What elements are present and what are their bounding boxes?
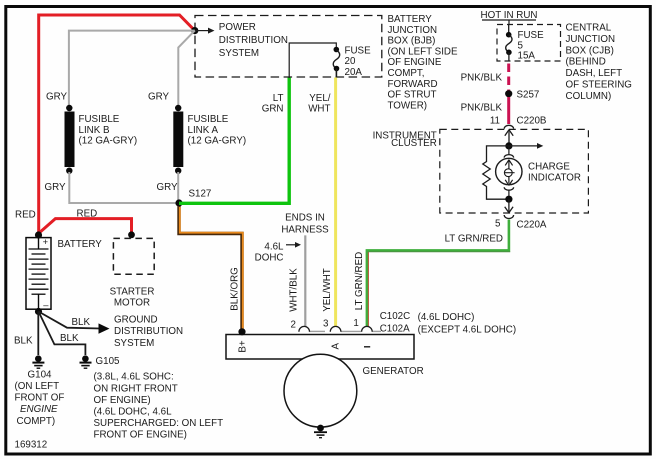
svg-text:POWER: POWER — [219, 22, 256, 33]
resistor in instrument cluster — [483, 146, 509, 199]
svg-text:RED: RED — [77, 209, 98, 220]
svg-text:20: 20 — [345, 56, 356, 67]
svg-text:+: + — [43, 236, 49, 247]
svg-text:S127: S127 — [189, 189, 212, 200]
wire GRY fusible link A to splice S127 — [177, 172, 179, 203]
svg-text:BLK: BLK — [14, 336, 33, 347]
dashed box instrument cluster — [440, 129, 589, 213]
svg-text:BOX (CJB): BOX (CJB) — [566, 45, 614, 56]
svg-text:DOHC: DOHC — [255, 253, 284, 264]
connector pin 1 dome — [362, 326, 373, 331]
svg-text:DISTRIBUTION: DISTRIBUTION — [114, 326, 183, 337]
svg-text:(4.6L DOHC): (4.6L DOHC) — [418, 312, 475, 323]
svg-text:(ON LEFT: (ON LEFT — [15, 381, 60, 392]
wire BLK battery to G105 — [39, 312, 86, 356]
node junction top — [505, 142, 512, 149]
svg-text:15A: 15A — [518, 50, 536, 61]
svg-text:COMPT): COMPT) — [17, 416, 56, 427]
svg-text:169312: 169312 — [15, 440, 48, 451]
wire YEL/WHT fuse 20 to generator pin 3 — [335, 69, 337, 78]
svg-text:CENTRAL: CENTRAL — [566, 23, 612, 34]
svg-text:JUNCTION: JUNCTION — [388, 25, 438, 36]
svg-text:FUSIBLE: FUSIBLE — [79, 114, 120, 125]
svg-text:YEL/WHT: YEL/WHT — [322, 268, 333, 312]
node B+ terminal — [238, 328, 245, 335]
fuse 5 15A — [506, 25, 512, 62]
wire PNK/BLK S257 to C220B — [507, 97, 510, 124]
svg-text:HARNESS: HARNESS — [281, 224, 329, 235]
svg-text:FUSIBLE: FUSIBLE — [188, 114, 229, 125]
svg-text:FRONT OF ENGINE): FRONT OF ENGINE) — [94, 430, 187, 441]
svg-text:RED: RED — [15, 210, 36, 221]
svg-text:3: 3 — [323, 319, 329, 330]
svg-text:LINK B: LINK B — [79, 125, 111, 136]
svg-text:WHT: WHT — [308, 104, 330, 115]
svg-text:ENGINE: ENGINE — [20, 404, 58, 415]
svg-text:20A: 20A — [345, 67, 363, 78]
svg-text:BOX (BJB): BOX (BJB) — [388, 36, 436, 47]
svg-text:DASH, LEFT: DASH, LEFT — [566, 68, 623, 79]
svg-text:C220A: C220A — [517, 220, 547, 231]
ground at generator — [314, 425, 327, 438]
svg-text:CLUSTER: CLUSTER — [391, 138, 437, 149]
fuse 20 20A — [333, 47, 339, 72]
svg-text:ON RIGHT FRONT: ON RIGHT FRONT — [94, 383, 178, 394]
svg-text:(4.6L DOHC, 4.6L: (4.6L DOHC, 4.6L — [94, 407, 173, 418]
node S126 junction dot at power distribution — [191, 27, 198, 34]
svg-text:S257: S257 — [517, 90, 540, 101]
svg-text:LT GRN/RED: LT GRN/RED — [445, 234, 503, 245]
generator circle — [284, 354, 357, 427]
wire out of instrument cluster with down arrow — [505, 199, 513, 213]
wire GRY node to fusible link A — [178, 31, 195, 106]
splice S127 — [175, 199, 182, 206]
wire BLK battery to G104 — [37, 312, 39, 356]
wire BLK/ORG splice S127 to generator B+ — [179, 206, 242, 330]
svg-text:JUNCTION: JUNCTION — [566, 34, 616, 45]
svg-text:5: 5 — [495, 219, 501, 230]
svg-text:BATTERY: BATTERY — [388, 14, 433, 25]
svg-text:2: 2 — [291, 320, 296, 331]
starter motor dashed box — [128, 231, 135, 238]
dashed box power distribution / battery junction box — [195, 16, 382, 78]
svg-text:OF STRUT: OF STRUT — [388, 90, 437, 101]
svg-text:PNK/BLK: PNK/BLK — [461, 73, 503, 84]
dashed box central junction box — [497, 25, 561, 62]
svg-text:(12 GA-GRY): (12 GA-GRY) — [188, 136, 247, 147]
svg-text:C220B: C220B — [517, 116, 547, 127]
svg-text:GRY: GRY — [46, 92, 68, 103]
svg-text:GRN: GRN — [262, 104, 284, 115]
svg-text:TOWER): TOWER) — [388, 100, 428, 111]
svg-text:11: 11 — [490, 116, 500, 127]
wire RED battery to starter motor — [39, 219, 132, 234]
svg-text:BLK/ORG: BLK/ORG — [230, 267, 241, 311]
svg-text:(3.8L, 4.6L SOHC:: (3.8L, 4.6L SOHC: — [94, 372, 174, 383]
svg-text:(EXCEPT 4.6L DOHC): (EXCEPT 4.6L DOHC) — [418, 325, 517, 336]
svg-text:HOT IN RUN: HOT IN RUN — [481, 10, 538, 21]
fusible link B — [65, 105, 75, 174]
label minus — [364, 346, 370, 348]
generator box — [226, 335, 414, 360]
svg-text:BATTERY: BATTERY — [58, 239, 103, 250]
ground G105 — [80, 355, 92, 368]
svg-text:DISTRIBUTION: DISTRIBUTION — [219, 35, 288, 46]
svg-text:OF ENGINE): OF ENGINE) — [94, 395, 151, 406]
svg-text:(BEHIND: (BEHIND — [566, 57, 606, 68]
svg-text:BLK: BLK — [60, 333, 79, 344]
svg-text:YEL/: YEL/ — [309, 93, 331, 104]
svg-text:INDICATOR: INDICATOR — [528, 173, 581, 184]
svg-text:LT GRN/RED: LT GRN/RED — [354, 252, 365, 310]
svg-text:BLK: BLK — [72, 317, 91, 328]
wire PNK/BLK fuse 5 to S257 dashed — [507, 64, 510, 92]
svg-text:C102A: C102A — [380, 324, 410, 335]
charge indicator lamp U1 — [496, 146, 522, 196]
svg-text:1: 1 — [353, 318, 358, 329]
svg-text:CHARGE: CHARGE — [528, 162, 570, 173]
connector C220B — [504, 125, 513, 128]
node junction bottom — [505, 196, 512, 203]
arrow into power distribution system — [195, 28, 215, 34]
svg-text:SYSTEM: SYSTEM — [219, 48, 259, 59]
svg-text:OF ENGINE: OF ENGINE — [388, 57, 442, 68]
wire into instrument cluster with up arrow — [505, 130, 513, 146]
wire WHT/BLK ends in harness to generator pin 2 — [304, 235, 306, 327]
wire BLK battery to ground distribution system — [39, 312, 101, 329]
svg-text:FRONT OF: FRONT OF — [15, 393, 65, 404]
battery — [26, 231, 51, 315]
svg-text:4.6L: 4.6L — [264, 241, 284, 252]
fusible link A — [173, 105, 183, 174]
svg-text:GRY: GRY — [157, 182, 179, 193]
svg-text:(ON LEFT SIDE: (ON LEFT SIDE — [388, 46, 459, 57]
connector pin 2 dome — [299, 326, 310, 331]
wire GRY node to fusible link B — [69, 31, 195, 106]
arrow to right inside cluster — [509, 143, 543, 149]
wire RED battery to power distribution node — [39, 15, 195, 235]
svg-text:MOTOR: MOTOR — [114, 298, 150, 309]
ground G104 — [32, 355, 44, 368]
svg-text:GRY: GRY — [148, 92, 170, 103]
svg-text:–: – — [43, 299, 49, 310]
wire black inside BJB to fuse 20 — [289, 43, 336, 78]
svg-text:GRY: GRY — [45, 182, 67, 193]
wire LT GRN splice S127 to battery junction box — [179, 78, 289, 204]
svg-text:WHT/BLK: WHT/BLK — [289, 268, 300, 312]
svg-text:COMPT,: COMPT, — [388, 68, 425, 79]
svg-text:PNK/BLK: PNK/BLK — [461, 103, 503, 114]
svg-text:ENDS IN: ENDS IN — [285, 212, 325, 223]
svg-text:LT: LT — [273, 93, 284, 104]
svg-text:A: A — [331, 342, 342, 349]
svg-text:C102C: C102C — [380, 311, 411, 322]
svg-text:FUSE: FUSE — [518, 30, 545, 41]
svg-text:SYSTEM: SYSTEM — [114, 338, 154, 349]
connector pin 3 dome — [330, 326, 341, 331]
wire LT GRN/RED C220A to generator pin 1 — [367, 220, 509, 328]
connector line C102 grey segments — [310, 330, 382, 332]
svg-text:GENERATOR: GENERATOR — [363, 366, 424, 377]
svg-text:COLUMN): COLUMN) — [566, 91, 612, 102]
svg-text:STARTER: STARTER — [110, 287, 155, 298]
svg-text:SUPERCHARGED: ON LEFT: SUPERCHARGED: ON LEFT — [94, 418, 224, 429]
svg-text:FORWARD: FORWARD — [388, 79, 438, 90]
wire GRY fusible link B to splice S127 — [69, 172, 179, 203]
svg-text:(12 GA-GRY): (12 GA-GRY) — [79, 136, 138, 147]
svg-text:LINK A: LINK A — [188, 125, 219, 136]
svg-text:GROUND: GROUND — [114, 315, 158, 326]
svg-text:G104: G104 — [28, 369, 53, 380]
splice S257 — [505, 90, 512, 97]
svg-text:FUSE: FUSE — [345, 46, 372, 57]
svg-text:G105: G105 — [96, 356, 121, 367]
svg-text:B+: B+ — [237, 340, 248, 353]
connector C220A — [504, 215, 513, 218]
svg-text:OF STEERING: OF STEERING — [566, 80, 632, 91]
